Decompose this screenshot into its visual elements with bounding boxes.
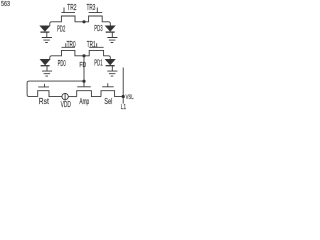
ground for PD3 bbox=[107, 32, 117, 42]
ground for PD0 bbox=[42, 66, 52, 76]
node VSL junction dot bbox=[122, 95, 125, 98]
svg-text:PD3: PD3 bbox=[94, 24, 103, 33]
photodiode PD2 bbox=[40, 26, 50, 32]
svg-text:Sel: Sel bbox=[104, 97, 112, 106]
svg-text:TR1: TR1 bbox=[87, 40, 96, 49]
photodiode PD1 bbox=[105, 59, 115, 65]
svg-text:PD0: PD0 bbox=[58, 59, 66, 68]
svg-text:FD: FD bbox=[79, 60, 86, 69]
svg-text:TR0: TR0 bbox=[67, 40, 76, 49]
photodiode PD0 bbox=[40, 59, 50, 65]
svg-text:TR3: TR3 bbox=[87, 3, 96, 12]
wire FD horizontal line to Rst bbox=[27, 81, 84, 97]
node junction row1 to FD column bbox=[82, 20, 85, 23]
svg-text:Amp: Amp bbox=[79, 97, 89, 106]
power supply VDD circle bbox=[62, 93, 68, 100]
svg-text:TR2: TR2 bbox=[67, 3, 77, 12]
svg-text:PD1: PD1 bbox=[94, 59, 103, 68]
transistor Rst channel bbox=[38, 91, 62, 97]
transistor TR3 gate bbox=[89, 8, 103, 13]
transistor Amp channel bbox=[77, 91, 101, 97]
ground for PD1 bbox=[107, 66, 117, 76]
transistor Amp gate bbox=[77, 81, 91, 87]
transistor Sel gate bbox=[102, 83, 114, 87]
transistor TR2 gate bbox=[61, 8, 75, 13]
node FD to Amp gate junction dot bbox=[82, 80, 85, 83]
transistor TR1 gate bbox=[89, 43, 103, 47]
svg-text:VDD: VDD bbox=[61, 100, 71, 109]
transistor Sel channel bbox=[101, 91, 123, 97]
wire VSL vertical signal line bbox=[122, 68, 124, 104]
wire row2 baseline with TR0/TR1 channel bumps bbox=[50, 50, 111, 59]
svg-text:VSL: VSL bbox=[126, 94, 134, 101]
transistor TR0 gate bbox=[62, 43, 75, 47]
wire row1 baseline with TR2/TR3 channel bumps bbox=[50, 16, 111, 26]
svg-text:L1: L1 bbox=[121, 104, 127, 111]
ground for PD2 bbox=[42, 32, 52, 42]
wire FD vertical line bbox=[83, 56, 85, 81]
node FD junction dot bbox=[82, 54, 85, 57]
svg-text:Rst: Rst bbox=[39, 97, 50, 106]
svg-text:PD2: PD2 bbox=[57, 25, 65, 34]
photodiode PD3 bbox=[105, 26, 115, 32]
svg-text:563: 563 bbox=[1, 1, 10, 8]
wire VDD to Amp bbox=[68, 96, 76, 98]
transistor Rst gate bbox=[38, 84, 49, 87]
